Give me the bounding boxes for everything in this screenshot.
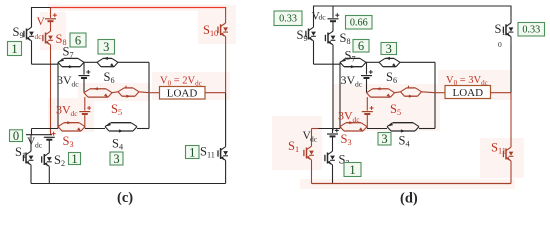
svg-text:1: 1 <box>189 145 195 159</box>
svg-text:dc: dc <box>71 109 79 118</box>
wire between red pair (c) <box>112 91 118 94</box>
label Vdc bottom (c) <box>27 136 36 148</box>
wire S7 to battery tap (d) <box>366 61 379 63</box>
label 3Vdc upper (c) <box>57 73 72 87</box>
battery V8 Vdc bottom (d) <box>327 128 339 136</box>
label S7 (c) <box>63 45 74 60</box>
wire left rail upper (d) <box>313 6 315 23</box>
battery V2 3Vdc lead (c) <box>83 62 85 74</box>
wire top rail black segment (c) <box>32 7 52 9</box>
value box 0 (c) <box>10 129 23 143</box>
transistor S5b red (c) <box>118 86 139 98</box>
wire top rail red (c) <box>51 7 226 9</box>
label S4 (d) <box>399 134 410 149</box>
wire red battery to S3 node (c) <box>84 114 86 129</box>
svg-text:(c): (c) <box>117 190 133 206</box>
svg-text:1: 1 <box>349 163 355 177</box>
svg-text:0: 0 <box>498 40 502 49</box>
svg-text:3V: 3V <box>338 109 353 123</box>
battery V3 3Vdc red lead (c) <box>84 97 86 111</box>
svg-text:6: 6 <box>358 39 364 53</box>
svg-text:LOAD: LOAD <box>167 88 198 100</box>
wire S1 collector red (d) <box>311 129 313 142</box>
caption (c) <box>117 190 133 206</box>
svg-text:3V: 3V <box>341 73 356 87</box>
wire red row to load node (c) <box>139 91 149 94</box>
battery V5 Vdc top lead (d) <box>332 6 334 18</box>
wire mid-left horizontal (d) <box>314 63 341 65</box>
label 3Vdc lower red (c) <box>56 103 71 117</box>
wire battery to S2 (d) <box>332 136 334 146</box>
wire S3 to S4 (d) <box>367 128 387 130</box>
wire right rail S10 to load red (c) <box>225 42 227 93</box>
wire S4 to inner right (c) <box>137 128 149 130</box>
transistor S9 (c) <box>24 22 34 46</box>
svg-text:3V: 3V <box>56 103 71 117</box>
caption (d) <box>400 191 418 207</box>
transistor S9 (d) <box>306 22 316 46</box>
transistor S1 (c) <box>23 135 33 170</box>
wire right rail S10 to load (d) <box>510 42 512 93</box>
transistor S8 (d) <box>325 26 335 50</box>
wire red row to load node (d) <box>422 91 436 94</box>
svg-text:3: 3 <box>381 132 387 146</box>
battery V6 3Vdc lead (d) <box>366 62 368 74</box>
label S1 (c) <box>15 145 26 160</box>
wire S7 to battery tap (c) <box>84 61 97 63</box>
label S6 (c) <box>104 70 115 85</box>
battery V5 Vdc (d) <box>328 13 340 21</box>
wire S11 to bottom rail red (d) <box>510 166 512 184</box>
svg-text:0.66: 0.66 <box>350 18 368 29</box>
svg-text:dc: dc <box>72 80 80 89</box>
label V (c) <box>37 16 46 28</box>
wire S1 emitter to bottom rail red (d) <box>311 165 313 184</box>
label Vdc bottom subscript (c) <box>35 141 43 150</box>
battery V7 3Vdc red lead (d) <box>366 97 368 111</box>
transistor S3 red (d) <box>340 121 367 131</box>
wire S8 emitter long vertical (d) <box>332 50 334 131</box>
transistor S10 red (c) <box>218 18 228 42</box>
label S7 (d) <box>345 49 356 64</box>
label S9 (c) <box>13 25 24 40</box>
wire battery to red row (c) <box>83 78 85 93</box>
label S3 (d) <box>341 132 352 147</box>
transistor S5b red (d) <box>401 86 422 98</box>
load box LOAD (d) <box>445 86 491 100</box>
svg-text:dc: dc <box>319 13 327 22</box>
svg-text:6: 6 <box>75 33 81 47</box>
label 3Vdc upper (d) <box>341 73 356 87</box>
wire right rail upper red (c) <box>225 7 227 18</box>
value box 6 (c) <box>70 33 86 47</box>
battery V3 3Vdc red (c) <box>79 106 91 114</box>
wire bottom rail (c) <box>31 183 226 185</box>
transistor S8 red (c) <box>43 26 53 50</box>
label S2 (d) <box>339 153 350 168</box>
wire mid-left horizontal (c) <box>32 63 59 65</box>
wire S3 to S4 (c) <box>85 128 105 130</box>
svg-text:0.33: 0.33 <box>522 25 540 36</box>
transistor S11 (c) <box>218 142 228 166</box>
wire S4 to inner right (d) <box>419 128 435 130</box>
transistor S7 (d) <box>340 58 366 68</box>
wire right rail upper (d) <box>510 6 512 18</box>
value box 1 right (c) <box>186 145 200 159</box>
load box LOAD (c) <box>160 87 206 100</box>
label S8 (c) <box>56 32 67 47</box>
label 3Vdc upper subscript (c) <box>72 80 80 89</box>
wire S3 row left (d) <box>318 128 340 130</box>
wire inner left vertical (d) <box>339 62 341 128</box>
battery V2 3Vdc (c) <box>79 70 91 78</box>
wire left rail to mid node (c) <box>31 46 33 64</box>
label S11 (c) <box>200 145 215 160</box>
label S10 (c) <box>203 23 218 38</box>
label 3Vdc lower red subscript (d) <box>353 115 361 124</box>
wire inner right vertical (d) <box>434 62 436 128</box>
load wire right red (c) <box>205 92 226 94</box>
wire S3 row left (c) <box>32 128 59 130</box>
label dc subscript (c) <box>35 32 43 41</box>
svg-text:dc: dc <box>355 80 363 89</box>
label V0 = 3Vdc (d) <box>446 75 488 87</box>
svg-text:3: 3 <box>113 152 119 166</box>
value box 1 for S9 (c) <box>8 42 22 56</box>
wire right rail load to S11 (c) <box>225 93 227 142</box>
wire bottom node (c) <box>26 134 52 136</box>
transistor S2 (c) <box>42 148 52 172</box>
label S5 (c) <box>111 102 122 117</box>
battery V4 Vdc bottom (c) <box>44 132 56 140</box>
wire bottom rail red (d) <box>312 183 512 185</box>
wire S6 to inner right (d) <box>400 61 435 63</box>
transistor S1 red (d) <box>304 141 314 165</box>
battery V1 Vdc (c) <box>45 13 57 21</box>
wire S2 emitter to bottom rail (d) <box>332 170 334 184</box>
value box 1 bottom (d) <box>344 163 361 177</box>
svg-text:(d): (d) <box>400 191 418 207</box>
wire battery to S8 (d) <box>332 21 334 26</box>
value box 6 (d) <box>353 39 369 53</box>
label S6 (d) <box>386 70 397 85</box>
wire red battery to S3 node (d) <box>366 114 368 129</box>
wire between red pair (d) <box>395 91 401 94</box>
label Vdc bottom subscript (d) <box>310 135 318 144</box>
svg-text:0: 0 <box>13 129 19 143</box>
label S10 (d) <box>495 22 506 37</box>
svg-text:1: 1 <box>11 42 17 56</box>
battery V1 Vdc top lead (c) <box>50 8 52 18</box>
wire S1 emitter to bottom rail (c) <box>30 170 32 184</box>
load wire right red (d) <box>491 92 512 94</box>
node: DC bus top-left corner (c) <box>0 0 1 1</box>
wire S6 to inner right (c) <box>118 61 149 63</box>
battery V8 Vdc bottom lead (d) <box>332 129 334 134</box>
transistor S11 red (d) <box>503 142 513 166</box>
wire inner right vertical (c) <box>148 62 150 128</box>
transistor S6 (c) <box>97 57 118 67</box>
label S8 (d) <box>340 31 351 46</box>
value box 3 lower (c) <box>110 152 123 166</box>
transistor S5a red (c) <box>84 87 112 97</box>
wire top rail (d) <box>314 5 512 7</box>
svg-text:3V: 3V <box>57 73 72 87</box>
transistor S5a red (d) <box>367 87 395 97</box>
wire battery to S8 (c) <box>50 21 52 26</box>
transistor S4 (d) <box>387 122 419 132</box>
svg-text:3: 3 <box>386 42 392 56</box>
wire S8 emitter long red vertical (c) <box>50 50 52 135</box>
label S4 (c) <box>112 137 123 152</box>
transistor S10 (d) <box>503 18 513 42</box>
transistor S7 (c) <box>58 58 84 68</box>
transistor S3 red (c) <box>58 121 85 131</box>
load wire left red (c) <box>149 92 160 94</box>
label S1 (d) <box>288 139 299 154</box>
svg-text:0.33: 0.33 <box>279 14 297 25</box>
label Vdc top subscript (d) <box>319 13 327 22</box>
wire battery to red row (d) <box>366 78 368 93</box>
wire left rail upper (c) <box>31 7 33 22</box>
value box 0.33 left (d) <box>274 11 302 26</box>
value box 0.33 right (d) <box>518 23 545 37</box>
wire battery to S2 (c) <box>48 140 50 148</box>
value box 3 lower (d) <box>378 132 391 146</box>
label 3Vdc lower red (d) <box>338 109 353 123</box>
svg-text:3: 3 <box>103 40 109 54</box>
battery V7 3Vdc red (d) <box>362 106 374 114</box>
transistor S4 (c) <box>105 122 137 132</box>
value box 3 upper (c) <box>98 40 115 55</box>
battery V6 3Vdc (d) <box>361 70 373 78</box>
svg-text:dc: dc <box>35 32 43 41</box>
transistor S2 (d) <box>325 146 335 170</box>
label Vdc bottom (d) <box>303 130 312 142</box>
value box 0.66 (d) <box>346 16 373 30</box>
label S2 (c) <box>54 153 65 168</box>
value box 1 bottom (c) <box>69 152 81 166</box>
value box 3 upper (d) <box>381 42 397 56</box>
label V0 = 2Vdc (c) <box>160 76 202 88</box>
svg-text:1: 1 <box>71 152 77 166</box>
label S9 (d) <box>297 28 308 43</box>
wire left link down (c) <box>31 129 33 136</box>
wire inner left vertical (c) <box>57 62 59 128</box>
wire S2 emitter to bottom rail (c) <box>48 172 50 184</box>
wire bottom node red part (d) <box>312 128 319 130</box>
svg-text:V: V <box>37 16 46 28</box>
transistor S6 (d) <box>379 57 400 67</box>
wire right rail load to S11 red (d) <box>510 93 512 142</box>
wire S11 to bottom rail (c) <box>225 166 227 184</box>
svg-text:LOAD: LOAD <box>453 87 484 99</box>
wire left rail to mid node (d) <box>313 46 315 64</box>
label 3Vdc lower red subscript (c) <box>71 109 79 118</box>
label S11 (d) <box>491 141 506 156</box>
label S3 (c) <box>63 134 74 149</box>
label Vdc top (d) <box>312 11 321 23</box>
svg-text:dc: dc <box>35 141 43 150</box>
label S5 (d) <box>390 102 401 117</box>
label 3Vdc upper subscript (d) <box>355 80 363 89</box>
